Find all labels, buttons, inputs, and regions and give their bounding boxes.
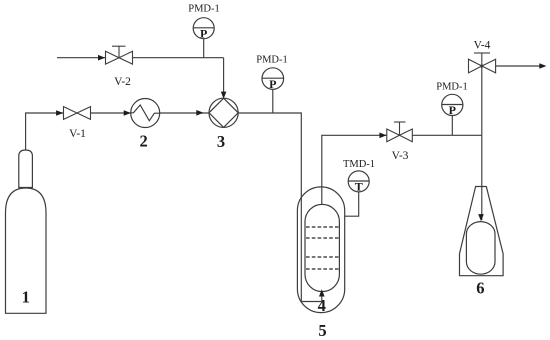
svg-text:P: P [269, 77, 276, 91]
arrow into V-3 [379, 133, 386, 139]
svg-text:V-4: V-4 [474, 39, 491, 51]
svg-text:1: 1 [22, 288, 30, 307]
valve V-4 [469, 53, 496, 73]
wire gauge PMD-1b connector [272, 89, 274, 113]
wire V-4 riser and flask drop [481, 66, 483, 220]
vessel 5 inner liner [305, 204, 339, 291]
gas cylinder 1 neck [19, 150, 33, 188]
wire V-4 outlet [496, 65, 544, 67]
gauge PMD-1a [193, 18, 214, 39]
svg-text:T: T [355, 180, 363, 194]
wire V-3 to junction [412, 134, 482, 136]
svg-text:PMD-1: PMD-1 [436, 81, 468, 92]
heat exchanger 2 [131, 99, 160, 128]
wire HX 2 to pump 3 [160, 112, 209, 114]
svg-text:3: 3 [217, 132, 225, 151]
svg-text:PMD-1: PMD-1 [256, 54, 288, 65]
arrow into V-1 [56, 110, 63, 116]
wire vessel vapor outlet to V-3 [322, 135, 387, 204]
gauge TMD-1 [348, 171, 369, 192]
vessel 5 packing dashed lines [306, 227, 339, 269]
wire cylinder riser [26, 113, 64, 150]
flask 6 inner capsule [466, 222, 495, 275]
vessel 5 outer shell [297, 187, 344, 313]
svg-text:5: 5 [318, 321, 326, 340]
svg-text:P: P [449, 103, 456, 117]
flask 6 dewar outline [460, 187, 504, 276]
wire gauge PMD-1c connector [451, 116, 453, 136]
gauge PMD-1b [262, 68, 284, 90]
arrow down into flask capsule [478, 214, 484, 221]
svg-text:V-2: V-2 [114, 76, 131, 88]
svg-text:P: P [200, 27, 207, 41]
wire bypass drop into pump 3 [223, 58, 225, 97]
arrow V-4 outlet end [539, 63, 546, 69]
valve V-1 [64, 107, 91, 120]
arrow down into pump 3 [221, 92, 227, 99]
arrow into HX 2 [124, 110, 131, 116]
svg-text:6: 6 [476, 279, 484, 298]
svg-text:PMD-1: PMD-1 [188, 4, 220, 15]
wire TMD-1 connector [345, 192, 359, 216]
svg-text:TMD-1: TMD-1 [343, 159, 375, 170]
svg-text:V-1: V-1 [69, 128, 86, 140]
wire V-1 to HX 2 [91, 112, 132, 114]
arrowheads [56, 55, 546, 297]
valve V-2 [106, 46, 133, 64]
arrow up into inner vessel [319, 289, 325, 296]
valve V-3 [387, 122, 413, 142]
wire top bypass line [57, 57, 224, 59]
gauge PMD-1c [442, 94, 463, 115]
arrow into pump 3 left [196, 110, 203, 116]
svg-text:V-3: V-3 [392, 150, 409, 162]
arrow into V-2 [98, 55, 105, 61]
pump 3 [209, 98, 238, 127]
svg-text:2: 2 [139, 132, 147, 151]
wire pump 3 outlet to vessel feed drop [238, 113, 322, 302]
gas cylinder 1 body [6, 188, 47, 313]
wire gauge PMD-1a connector [203, 39, 205, 58]
svg-text:4: 4 [318, 296, 326, 315]
